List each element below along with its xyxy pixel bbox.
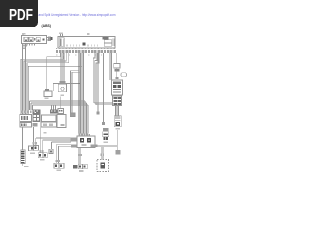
sub-box B2 (104, 43, 111, 46)
labels below box A (22, 45, 26, 47)
label above bus (43, 132, 46, 134)
label below block R (116, 128, 121, 130)
pair2 wires (41, 127, 43, 153)
component P1 box (44, 91, 52, 97)
bends bundle to mid plug (71, 71, 81, 113)
small component above pair2 (49, 149, 53, 153)
upper stack hatch rows low (113, 90, 121, 93)
pair1 label (30, 153, 35, 155)
dashed sensor box (97, 160, 109, 172)
wire from box A pin2 (25, 44, 27, 115)
left sensor stack hatch row (103, 128, 109, 131)
motor P2 circle (61, 87, 64, 90)
feeder elbows down to ABS (85, 101, 88, 134)
fuse F3 mark in box A (34, 38, 36, 40)
fuse F1 in box A (24, 37, 28, 41)
strip box L3 (57, 115, 66, 128)
fuse F4 in box A (36, 37, 40, 41)
pair4 label (79, 170, 84, 172)
right drops from band into grid R (93, 53, 112, 105)
sensor element (101, 163, 106, 169)
main vertical bundle (79, 53, 84, 134)
strip second row pin bar (41, 122, 57, 127)
strip second row marks (33, 123, 38, 127)
pair1 wires (34, 127, 36, 146)
fuse label R (115, 69, 120, 71)
horizontal bus lines (36, 138, 71, 146)
plug stub wires right of box A (47, 38, 49, 41)
connector plug mid (70, 113, 75, 117)
wires band to motor P2 (60, 53, 64, 81)
upper stack R box (112, 80, 123, 95)
ABS label (82, 144, 87, 146)
chain R wires from band (110, 53, 117, 80)
pair2 hatch marks (40, 150, 42, 153)
wire below ladder (22, 164, 24, 167)
wires below grid R (116, 106, 119, 116)
fuse F2 in box A (29, 37, 33, 41)
pair3 label (56, 170, 61, 172)
connector grid R (113, 96, 122, 106)
chain L cap 1 (96, 112, 99, 115)
label bubble right of fuse (121, 73, 127, 77)
P1 side feed wire (53, 84, 80, 92)
plug dark cap (51, 37, 53, 40)
dark block D2 (50, 109, 58, 113)
pair3 wires (57, 144, 59, 163)
ground tick (24, 165, 29, 167)
label below left stack (104, 141, 109, 143)
upper stack cells (113, 85, 117, 88)
connector strip labels row (21, 111, 32, 114)
sub-box B1 (104, 40, 111, 43)
svg-text:and Split Unregistered Version: and Split Unregistered Version - http://… (39, 13, 116, 17)
end connector right (116, 150, 121, 155)
hatch strip in box B (59, 38, 64, 47)
dark block D1 (33, 109, 41, 114)
chain L wire 2 (103, 53, 105, 122)
wire stubs from box A bottom (27, 44, 35, 46)
label above box B right (87, 33, 90, 35)
chain L wire 1 (97, 53, 99, 112)
wire id labels below band (56, 55, 102, 56)
strip second row box left (20, 123, 32, 128)
motor P2 connector hatch (60, 81, 66, 84)
pin ticks above box B (61, 34, 63, 37)
dark feed wire (28, 53, 82, 114)
connector pin band below ECU (56, 50, 116, 53)
ABS hydraulic unit box (77, 136, 95, 148)
left sensor stack cells (104, 137, 106, 140)
component P1 connector cap (45, 89, 49, 91)
hatch marks above dashed box (100, 154, 102, 157)
label below P2 (61, 95, 65, 97)
ECU box B (58, 37, 115, 49)
wires right of ABS box (95, 145, 118, 147)
ABS right stub connector (91, 144, 98, 147)
pair4 hatch marks (78, 154, 82, 156)
wire from box A pin1 (22, 44, 24, 115)
hatch right edge in box B (113, 39, 114, 47)
fuse box R (114, 64, 120, 69)
pair4 dark box (73, 165, 77, 168)
pair2 relay left (38, 153, 43, 158)
pin tick above box A (22, 33, 24, 36)
pair3 hatch marks (56, 160, 60, 162)
marks in L3 (61, 124, 65, 126)
feeder lines left (30, 101, 89, 105)
pair3 relay right (59, 163, 64, 168)
node dot in box A (43, 38, 45, 40)
pair4 wires below ABS (79, 148, 81, 165)
interior tick row in box B (67, 45, 98, 47)
pair1 hatch marks (33, 142, 35, 145)
svg-text:PDF: PDF (9, 7, 33, 24)
ABS left stub connector lower (71, 145, 77, 148)
feeder drops to strip (30, 101, 33, 110)
motor P2 box (58, 84, 66, 92)
bend band to component P1 (47, 53, 61, 89)
wires into D2 (52, 105, 56, 109)
pair4 relay left (78, 164, 82, 169)
small box on L3 (58, 109, 64, 114)
T hatch R (116, 77, 119, 79)
pair1 relay right (34, 146, 39, 151)
wire down to connector (117, 130, 119, 150)
dark square in box B (83, 43, 86, 46)
connector hatch row above ABS box (78, 133, 89, 136)
strip box L2 (42, 115, 57, 122)
wires down to dashed sensor (101, 147, 103, 160)
label below P1 (45, 98, 49, 100)
fusebox BB00 box A (22, 36, 47, 44)
pair1 relay left (29, 146, 34, 151)
upper stack hatch row (113, 82, 121, 85)
solenoid right (87, 138, 91, 143)
pair4 relay right (83, 164, 87, 169)
pair3 relay left (54, 163, 59, 168)
PDF badge (0, 0, 38, 27)
ladder resistor block (21, 150, 26, 164)
bend wires band to left bundle (21, 53, 69, 114)
ABS left stub connector upper (71, 138, 77, 142)
strip dark box D3 (33, 114, 41, 122)
label above box A (22, 33, 26, 35)
pair2 relay right (43, 153, 47, 158)
chain L cap 2 (102, 122, 105, 125)
wire ladder drop (22, 127, 24, 150)
svg-text:(ABS): (ABS) (42, 24, 51, 28)
left sensor stack box (103, 132, 109, 137)
label above box B (59, 33, 63, 35)
wire below fuse R (116, 68, 118, 77)
connector plug right of box A (49, 37, 51, 41)
label in box B (102, 37, 108, 39)
lower block R (114, 116, 121, 127)
pair2 label (40, 159, 45, 161)
strip box L1 (20, 115, 32, 122)
wire P2 to strip small box (60, 96, 62, 108)
pin number row above band (56, 48, 115, 49)
solenoid left (80, 138, 84, 143)
